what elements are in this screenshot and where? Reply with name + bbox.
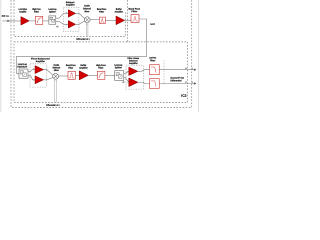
high pass filter 1 label bbox=[32, 8, 40, 10]
external band pass filter F3 bbox=[131, 15, 139, 23]
ultra linear balanced amplifier dashed box bbox=[126, 65, 143, 89]
external band pass filter label bbox=[129, 8, 140, 10]
band pass filter 1 label bbox=[97, 8, 106, 10]
IC2 designator bbox=[182, 94, 187, 96]
differential LO1 lines bbox=[86, 23, 88, 37]
double balanced mixer U1 bbox=[84, 17, 90, 23]
wire splitter3 to ultra linear amp bottom bbox=[124, 78, 129, 83]
wire splitter1 to balanced amp bottom bbox=[56, 21, 69, 24]
node Differential LO 1 bbox=[76, 38, 89, 40]
buffer amplifier 2 label bbox=[81, 64, 87, 66]
buffer amplifier 1 label bbox=[116, 8, 122, 10]
off-chip filter dashed boundary bbox=[163, 61, 165, 85]
balanced amplifier dashed box bbox=[63, 7, 79, 31]
differential LO2 lines bbox=[55, 79, 57, 102]
label HB 3 bbox=[122, 81, 124, 82]
double balanced mixer 2 label bbox=[54, 64, 59, 66]
lead-lag optimizer 2 label bbox=[18, 63, 27, 65]
wire splitter1 to balanced amp top bbox=[56, 13, 69, 18]
wire bbox=[105, 20, 116, 22]
wire bbox=[43, 20, 49, 22]
wire mixer2 out bbox=[59, 75, 69, 77]
first balanced amp top triangle A4a bbox=[35, 66, 44, 74]
balanced amplifier label bbox=[66, 1, 74, 3]
first balanced amplifier dashed box bbox=[30, 64, 46, 87]
low pass filter F6 top bbox=[150, 65, 160, 75]
wire bbox=[29, 20, 36, 22]
wire bbox=[105, 75, 115, 77]
low pass filters label bbox=[149, 57, 156, 59]
high pass filter 2 label bbox=[96, 64, 106, 66]
ultra linear balanced amplifier label bbox=[128, 57, 140, 59]
wire buffer1 to external filter bbox=[125, 19, 131, 21]
wire splitter3 to ultra linear amp top bbox=[124, 71, 129, 73]
low pass filter F7 bottom bbox=[150, 79, 160, 89]
wire external filter to IC2 input bbox=[16, 19, 146, 73]
buffer amplifier A5 bbox=[79, 71, 88, 80]
wire first balanced amp to mixer2 bottom bbox=[44, 77, 54, 79]
wire RF input bbox=[3, 20, 22, 22]
lead-lag optimizer U-LL2 bbox=[19, 69, 28, 78]
balanced amplifier bottom triangle A2b bbox=[68, 21, 75, 29]
lead-lag splitter 1 label bbox=[49, 8, 57, 10]
IC1 dashed boundary bbox=[14, 0, 125, 37]
node Second IF Out Differential bbox=[170, 77, 183, 79]
balanced amplifier top triangle A2a bbox=[68, 10, 75, 18]
low noise amplifier A1 bbox=[21, 17, 29, 26]
high pass filter F5 bbox=[97, 71, 105, 79]
lead-lag splitter U-LL3 bbox=[115, 71, 124, 81]
wire LPF bottom to output bbox=[159, 83, 194, 85]
wire balanced amp to mixer1 bottom bbox=[76, 21, 85, 24]
pin marks bbox=[185, 68, 186, 69]
node RF in bbox=[2, 15, 9, 17]
wire bbox=[75, 75, 79, 77]
wire balanced amp to mixer1 top bbox=[76, 13, 85, 18]
high pass filter F1 bbox=[36, 16, 43, 24]
node 1st IF bbox=[150, 23, 154, 25]
band pass filter F4 bbox=[68, 71, 75, 79]
wire bbox=[88, 75, 97, 77]
band pass filter 2 label bbox=[66, 64, 76, 66]
buffer amplifier A3 bbox=[116, 16, 125, 25]
ultra linear amp bottom triangle A6b bbox=[129, 78, 138, 87]
first balanced amp input polarity marks bbox=[32, 67, 35, 70]
balanced amp input polarity marks bbox=[65, 11, 68, 14]
off-chip region dashed boundary bbox=[127, 0, 129, 42]
outer board dashed border bbox=[11, 0, 192, 107]
wire splitter2 to first balanced amp bottom bbox=[28, 76, 35, 80]
wire first balanced amp to mixer2 top bbox=[44, 70, 54, 76]
band pass filter F2 bbox=[99, 17, 105, 23]
wire mixer1 out bbox=[90, 19, 99, 21]
label HB 1 bbox=[56, 26, 58, 27]
double balanced mixer U2 bbox=[53, 73, 59, 79]
IC2 dashed boundary bbox=[14, 42, 188, 103]
lead-lag splitter 3 label bbox=[114, 64, 122, 66]
wire splitter2 to first balanced amp top bbox=[28, 70, 35, 72]
page edge rules bbox=[1, 0, 199, 112]
first balanced amplifier label bbox=[31, 58, 49, 60]
wire ultra linear amp to LPF top bbox=[138, 70, 150, 72]
first balanced amp bottom triangle A4b bbox=[35, 76, 44, 84]
ultra linear amp top triangle A6a bbox=[129, 67, 138, 75]
double balanced mixer 1 label bbox=[84, 5, 89, 7]
ultra linear amp input polarity marks bbox=[126, 70, 129, 73]
node Differential LO 2 bbox=[46, 104, 59, 106]
wire ultra linear amp to LPF bottom bbox=[138, 82, 150, 83]
lead-lag splitter U-LL1 bbox=[49, 16, 56, 24]
wire LPF top to output bbox=[159, 69, 194, 71]
low noise amplifier label bbox=[19, 8, 27, 10]
